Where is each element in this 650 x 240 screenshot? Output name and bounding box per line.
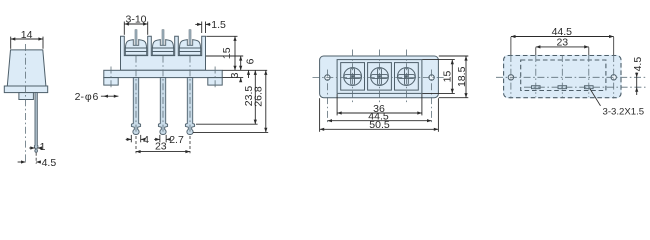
svg-text:18.5: 18.5 (456, 66, 468, 87)
svg-text:14: 14 (21, 29, 33, 41)
view2 terminal openings with screws (125, 30, 200, 56)
view2 dimension 26.8 (253, 70, 268, 132)
view1 dimension 4.5 (18, 157, 57, 169)
view3 dimension 18.5 (456, 56, 468, 98)
svg-text:1.5: 1.5 (211, 19, 226, 31)
view2 label 2-phi6 (75, 91, 119, 103)
view4 hole center lines (511, 37, 614, 99)
view3 horizontal center line (313, 77, 447, 79)
view1 solder pin (34, 93, 38, 153)
view3 left mounting hole (325, 75, 330, 80)
svg-text:23: 23 (155, 140, 167, 152)
view2 dimension 26.8 bottom extension (193, 131, 268, 133)
view2 dimension 4 (126, 134, 149, 146)
svg-text:6: 6 (244, 58, 256, 64)
view2 flange extension line (223, 69, 268, 71)
view3 dimension 18.5 extensions (439, 56, 469, 98)
view2 dimension 23 extensions (136, 136, 190, 153)
view2 dimension 4 extensions (131, 135, 140, 142)
view2 dimension 3 (229, 72, 242, 82)
svg-text:3-10: 3-10 (125, 14, 146, 26)
view2 dimension 6 extension (206, 55, 243, 57)
view1 dimension 14 (11, 29, 43, 41)
view3 dimension 15 extensions (422, 60, 455, 94)
view4 dimension 44.5 (511, 26, 614, 38)
view2 dimension 23.5 bottom extension (196, 123, 258, 125)
view4 left mounting hole (508, 75, 513, 80)
view2 pin center lines (136, 56, 190, 134)
view3 dimension 36 (337, 103, 422, 115)
view4 dimension 4.5 (632, 57, 644, 95)
view3 dimension 50.5 (320, 119, 439, 131)
view2 dimension 3 extension (223, 77, 244, 79)
view4 cavity hidden outline (521, 60, 606, 91)
view4 right mounting hole (611, 75, 616, 80)
view3 right mounting hole (429, 75, 434, 80)
svg-text:26.8: 26.8 (253, 86, 265, 107)
view2 dimension 2.7 extensions (160, 135, 166, 142)
view3 dimension 36 extensions (337, 94, 422, 115)
svg-text:3: 3 (229, 72, 241, 78)
svg-text:4: 4 (143, 134, 149, 146)
view1 vertical center line (25, 44, 27, 164)
view3 hole center lines (327, 70, 431, 123)
view1 flange (side) (4, 86, 47, 93)
view2 pins (131, 78, 194, 135)
view3 dimension 50.5 extensions (320, 98, 439, 132)
view2 body block (121, 36, 206, 70)
svg-text:1: 1 (40, 141, 46, 153)
svg-text:3-3.2X1.5: 3-3.2X1.5 (603, 106, 645, 117)
view3 dimension 44.5 (327, 111, 431, 123)
view2 dimension 3-10 (124, 14, 147, 26)
view2 stub arrow (247, 70, 250, 78)
svg-text:4.5: 4.5 (42, 157, 57, 169)
view4 body hidden outline (504, 56, 621, 98)
view2 dimension 1.5 (195, 19, 226, 31)
view2 left boss (104, 78, 118, 86)
view2 dimension 23 (136, 140, 190, 153)
view2 dimension 23.5 (243, 70, 257, 124)
view3 dimension 15 (441, 60, 454, 94)
view2 dimension 15 (221, 36, 237, 70)
view1 dimension 14 extension lines (11, 37, 43, 49)
svg-text:2.7: 2.7 (169, 134, 184, 146)
view2 right boss (208, 78, 222, 86)
view2 dimension 3-10 extensions (124, 22, 147, 35)
svg-text:50.5: 50.5 (369, 119, 390, 131)
view2 dimension 6 (239, 56, 256, 70)
view2 dimension 1.5 extensions (202, 22, 206, 34)
svg-text:15: 15 (221, 47, 233, 59)
view2 boss center lines (111, 67, 215, 89)
view4 horizontal center line (496, 76, 646, 78)
view1 dimension 1 (29, 141, 45, 153)
view1 boss (side) (19, 93, 34, 100)
view2 dimension 15 extension (206, 35, 237, 37)
view4 label 3-3.2X1.5 (590, 89, 644, 118)
svg-text:4.5: 4.5 (632, 57, 644, 72)
view4 pin slots (532, 86, 594, 89)
view3 raised block (337, 60, 422, 94)
view2 flange (104, 70, 222, 77)
view4 dimension 23 (536, 37, 589, 49)
svg-text:2- φ 6: 2- φ 6 (75, 91, 99, 103)
view3 body outline (320, 56, 439, 98)
svg-text:15: 15 (441, 71, 453, 83)
view1 pin center extension (35, 153, 37, 164)
view4 body fill (503, 55, 622, 98)
view3 screw terminals (341, 50, 419, 104)
view1 body (side) (7, 50, 46, 86)
view4 slot row center line (524, 86, 646, 88)
svg-text:23: 23 (556, 37, 568, 49)
view4 slot center lines (536, 47, 589, 97)
view2 dimension 2.7 (154, 134, 184, 146)
